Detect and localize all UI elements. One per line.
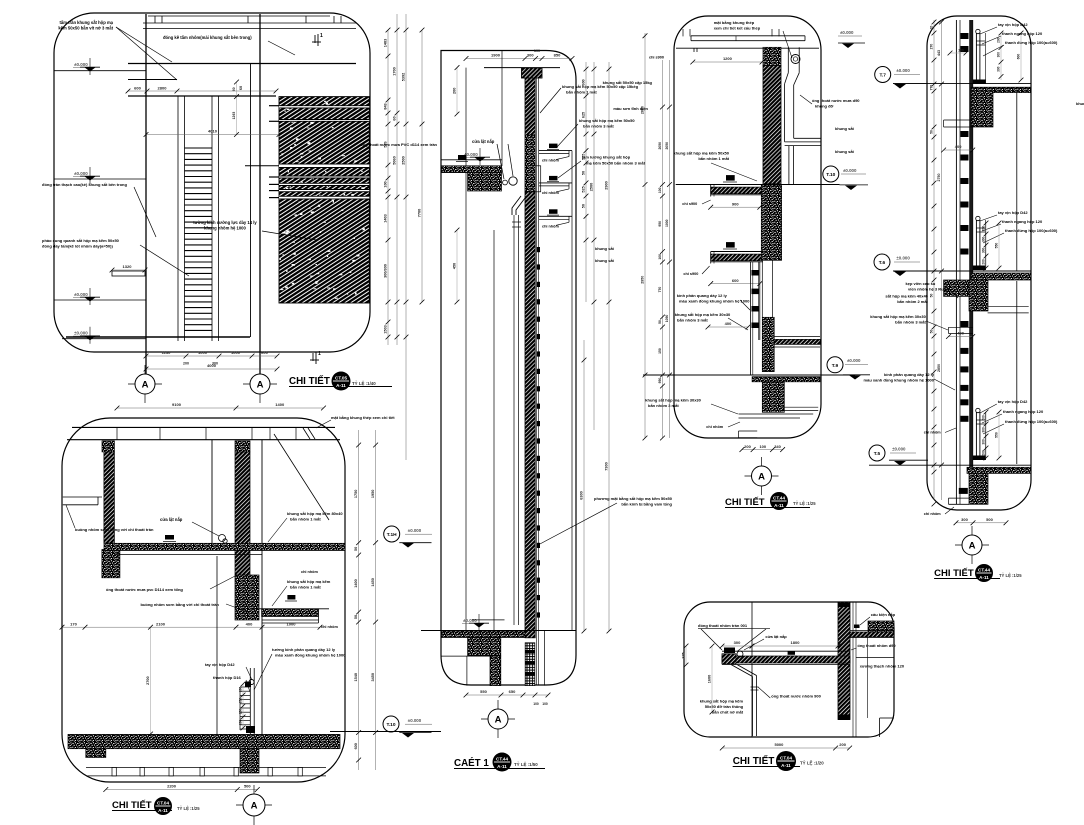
svg-text:TỶ LỆ :1/25: TỶ LỆ :1/25: [793, 501, 816, 506]
T9 circle: [827, 357, 843, 373]
dim 2700 vertical: [150, 627, 152, 734]
svg-text:chỉ nhôm: chỉ nhôm: [321, 625, 338, 629]
leader duong kinh: [262, 231, 317, 240]
D2 interior vline right: [261, 440, 263, 744]
svg-text:T.7: T.7: [879, 73, 886, 79]
svg-text:A-11: A-11: [979, 575, 989, 580]
svg-text:1950: 1950: [371, 490, 375, 498]
floor line y339: [62, 338, 146, 340]
svg-text:5000: 5000: [774, 742, 784, 747]
D4 slab 2: [971, 273, 1031, 280]
S interior vline 3: [493, 230, 495, 631]
svg-text:±0.000: ±0.000: [896, 256, 910, 261]
svg-text:TỶ LỆ :1/50: TỶ LỆ :1/50: [514, 762, 538, 767]
svg-text:325: 325: [682, 652, 686, 658]
svg-text:A-11: A-11: [336, 383, 346, 388]
svg-text:1000: 1000: [198, 350, 208, 355]
D2 ceiling line 1: [114, 554, 262, 556]
svg-text:1400: 1400: [275, 402, 285, 407]
D3 pipe horizontal: [785, 141, 821, 143]
D2 anchor hatch mid: [235, 441, 250, 452]
T11 circle: [384, 526, 400, 542]
svg-text:kẽm 50x50 bắn vít nở 3 mắt: kẽm 50x50 bắn vít nở 3 mắt: [58, 26, 113, 31]
svg-text:600: 600: [354, 743, 358, 749]
svg-text:±0.000: ±0.000: [463, 618, 477, 623]
svg-text:phào xung quanh sắt hộp mạ kẽm: phào xung quanh sắt hộp mạ kẽm 50x50: [42, 238, 120, 243]
svg-text:200: 200: [982, 226, 986, 232]
D4 floor line 2: [893, 270, 1031, 272]
D4 rail dim 1: [1000, 33, 1002, 80]
svg-text:20: 20: [930, 26, 934, 30]
leader mat bang D3: [783, 31, 792, 58]
leader khung sat D3a: [711, 163, 757, 181]
svg-text:khung sắt: khung sắt: [835, 149, 855, 154]
svg-text:CT.05: CT.05: [335, 375, 347, 380]
svg-text:tường kính phản quang dày 12 l: tường kính phản quang dày 12 ly: [272, 647, 336, 652]
floor line y71: [54, 70, 146, 72]
svg-text:2500: 2500: [402, 156, 406, 164]
svg-text:ống thoát nước nhôm 900: ống thoát nước nhôm 900: [771, 694, 821, 699]
dim chain D2 right: [358, 430, 360, 770]
svg-text:A: A: [758, 471, 765, 482]
D5 pipe vertical: [752, 677, 754, 737]
svg-text:buồng nhôm sorn bằng với chỉ t: buồng nhôm sorn bằng với chỉ thoát trần: [75, 527, 154, 532]
svg-text:đóng trần thạch cao(kẻ) khung: đóng trần thạch cao(kẻ) khung sắt bên tr…: [42, 182, 127, 187]
svg-text:A: A: [969, 540, 976, 551]
S slab right stub 1: [535, 166, 541, 192]
svg-text:TỶ LỆ :1/25: TỶ LỆ :1/25: [177, 806, 200, 811]
floor line between: [330, 731, 441, 733]
svg-text:T.5: T.5: [874, 451, 881, 457]
section flag top: [317, 34, 319, 46]
svg-text:bắn nhôm 3 mắt: bắn nhôm 3 mắt: [895, 320, 926, 325]
svg-text:chỉ nhôm: chỉ nhôm: [542, 159, 559, 163]
D3 pipe top: [787, 47, 789, 73]
svg-text:60: 60: [239, 86, 243, 90]
grid line A1 vertical: [145, 14, 147, 374]
D4 rail dim 3: [985, 412, 987, 458]
svg-text:khung sắt: khung sắt: [595, 258, 615, 263]
svg-text:màu xanh đồng khung nhôm hệ 10: màu xanh đồng khung nhôm hệ 1000: [864, 378, 935, 383]
svg-text:200: 200: [982, 450, 986, 456]
svg-text:6300: 6300: [580, 491, 584, 499]
svg-text:1503: 1503: [384, 325, 388, 333]
D3 column speckle mid: [761, 185, 781, 260]
svg-text:tấm trần khung sắt hộp mạ: tấm trần khung sắt hộp mạ: [59, 20, 113, 25]
dim 1200 D3: [693, 61, 762, 63]
D3 shelf 3: [739, 413, 814, 415]
ladder rungs: [177, 96, 179, 341]
svg-text:mạ kẽm 50x50 bắn nhôm 3 mắt: mạ kẽm 50x50 bắn nhôm 3 mắt: [586, 161, 646, 166]
svg-text:2050: 2050: [658, 142, 662, 150]
svg-text:50: 50: [658, 320, 662, 324]
svg-text:mặt bằng khung thép xem chi ti: mặt bằng khung thép xem chi tiết: [331, 415, 395, 420]
svg-text:cấu kiện nắp: cấu kiện nắp: [871, 612, 896, 617]
svg-text:400: 400: [955, 144, 962, 149]
svg-text:khung sắt hộp mạ kẽm: khung sắt hộp mạ kẽm: [287, 579, 331, 584]
svg-text:100: 100: [384, 181, 388, 187]
svg-text:843: 843: [384, 103, 388, 109]
dim 4000: [146, 368, 277, 370]
leader khung sat D3b: [728, 318, 748, 330]
D4 rail dim 2: [985, 223, 987, 268]
svg-text:5392: 5392: [402, 73, 406, 81]
svg-text:2500: 2500: [590, 183, 594, 191]
svg-text:550: 550: [480, 689, 487, 694]
svg-text:9100: 9100: [172, 402, 182, 407]
svg-text:2100: 2100: [156, 621, 166, 626]
svg-text:±0.000: ±0.000: [74, 292, 88, 297]
leader khung sat D4b: [926, 321, 948, 330]
S top cap line: [484, 67, 560, 69]
leader khung sat D2b: [272, 586, 287, 606]
svg-text:chỉ nhôm: chỉ nhôm: [924, 431, 941, 435]
svg-text:100: 100: [658, 187, 662, 193]
D5 interior vline: [751, 602, 753, 737]
S mid dim chain: [583, 340, 585, 631]
svg-text:770: 770: [658, 287, 662, 293]
dim chain S top: [466, 58, 572, 60]
S floor slab 1: [442, 166, 502, 173]
leader kep vien: [948, 288, 958, 298]
dim 400 D3: [708, 326, 748, 328]
svg-text:2050: 2050: [665, 142, 669, 150]
D4 bracket 1: [944, 119, 973, 121]
svg-text:±0.000: ±0.000: [892, 447, 906, 452]
D2 floor beam left: [86, 749, 106, 758]
svg-text:CHI TIẾT: CHI TIẾT: [725, 497, 765, 508]
grid line A2 vertical: [259, 14, 261, 374]
svg-text:CHI TIẾT: CHI TIẾT: [934, 568, 974, 579]
S mullion hatch lower: [525, 192, 535, 638]
svg-text:100: 100: [533, 702, 539, 706]
D3 mullion blocks: [752, 270, 760, 276]
D5 hatch band tr: [850, 632, 894, 637]
svg-text:300: 300: [997, 66, 1001, 72]
floor line y300: [54, 299, 146, 301]
svg-text:lam lường khung sắt hộp: lam lường khung sắt hộp: [582, 155, 631, 160]
S interior vline 2: [501, 51, 503, 167]
leader tam tran 2: [116, 27, 177, 80]
S glass vline: [571, 151, 573, 631]
svg-text:ống thoát nước mưa d90: ống thoát nước mưa d90: [812, 98, 860, 103]
svg-text:50: 50: [354, 547, 358, 551]
D5 beam: [722, 650, 850, 652]
D3 column hatch: [763, 66, 781, 184]
svg-text:T.10: T.10: [386, 722, 395, 728]
svg-text:mặt bằng khung thép: mặt bằng khung thép: [714, 20, 755, 25]
detail frame D2: [62, 418, 345, 782]
D4 mullion lines: [955, 20, 957, 504]
svg-text:1200: 1200: [723, 56, 733, 61]
svg-text:525: 525: [582, 154, 586, 160]
svg-text:±0.000: ±0.000: [408, 528, 422, 533]
S beam lines: [441, 655, 490, 657]
svg-text:kính phản quang dày 12 ly: kính phản quang dày 12 ly: [884, 372, 935, 377]
grid bubble A1: [144, 365, 146, 403]
D2 shelf 2 lines: [250, 608, 329, 610]
svg-text:±0.000: ±0.000: [896, 68, 910, 73]
D3 small bracket: [739, 430, 758, 432]
svg-text:±0.000: ±0.000: [74, 171, 88, 176]
D4 mullion blocks: [961, 33, 969, 39]
D3 shelf 2: [726, 242, 735, 248]
dim 400 D4a: [944, 149, 973, 151]
svg-text:tay vịn hộp D42: tay vịn hộp D42: [998, 22, 1028, 27]
svg-text:khung sắt hộp mạ kẽm 30x30: khung sắt hộp mạ kẽm 30x30: [870, 314, 926, 319]
svg-text:CT.44: CT.44: [496, 756, 508, 761]
D5 top right speckle: [868, 621, 894, 632]
S vent grille: [525, 643, 535, 686]
D5 dim 1600: [711, 646, 713, 712]
leader kinh phan quang D2: [254, 654, 272, 690]
svg-text:2950: 2950: [641, 276, 645, 284]
svg-text:50: 50: [930, 294, 934, 298]
D3 floor line 1: [676, 184, 840, 186]
svg-text:A: A: [495, 714, 502, 725]
svg-text:50: 50: [930, 330, 934, 334]
dim 400 D4b: [949, 336, 973, 338]
svg-text:270: 270: [930, 44, 934, 50]
svg-text:1130: 1130: [162, 350, 171, 355]
svg-text:bắn nhôm 3 mắt: bắn nhôm 3 mắt: [648, 403, 679, 408]
svg-text:950: 950: [658, 378, 662, 384]
D3 slab band mid: [774, 339, 820, 344]
svg-text:400: 400: [957, 331, 964, 336]
svg-text:±0.000: ±0.000: [408, 718, 422, 723]
svg-text:1320: 1320: [123, 264, 133, 269]
T7 circle: [875, 67, 891, 83]
D4 grid bubble: [971, 526, 973, 564]
svg-text:1483: 1483: [384, 39, 388, 47]
S dim bottom: [466, 694, 548, 696]
svg-text:650: 650: [509, 689, 516, 694]
svg-text:khung nhôm hệ 1000: khung nhôm hệ 1000: [204, 226, 246, 231]
dim 60 1263 D1: [236, 82, 238, 135]
svg-text:4010: 4010: [208, 129, 218, 134]
svg-text:1800: 1800: [791, 640, 801, 645]
svg-text:450: 450: [453, 263, 457, 269]
D5 pipe diagonal: [731, 665, 752, 677]
svg-text:50: 50: [582, 204, 586, 208]
S dim 450 vertical: [456, 230, 458, 302]
svg-text:500: 500: [244, 784, 251, 789]
svg-text:2200: 2200: [167, 784, 177, 789]
svg-text:T.9: T.9: [832, 363, 839, 369]
D2 grid bubble: [253, 785, 255, 825]
svg-text:250: 250: [239, 698, 243, 704]
svg-text:khung sắt: khung sắt: [835, 126, 855, 131]
S mullion hatch upper: [525, 78, 535, 135]
svg-text:cửa lật nắp: cửa lật nắp: [160, 517, 183, 522]
D4 beam 1: [971, 91, 993, 127]
svg-text:bắn chốt nở mắt: bắn chốt nở mắt: [712, 710, 744, 715]
D2 beam ticks: [116, 427, 118, 439]
svg-text:1: 1: [320, 33, 323, 39]
D2 under-wall block: [240, 749, 259, 773]
svg-text:khung sắt hộp mạ kẽm: khung sắt hộp mạ kẽm: [700, 699, 744, 704]
svg-text:150: 150: [658, 348, 662, 354]
T10 circle D3: [823, 166, 839, 182]
D2 bracket left: [63, 496, 102, 498]
svg-text:viền nhôm hệ 3 RuYa: viền nhôm hệ 3 RuYa: [908, 287, 949, 292]
svg-text:chỉ nhôm: chỉ nhôm: [706, 425, 723, 429]
svg-text:2700: 2700: [146, 676, 150, 684]
D2 wall mid speckle: [235, 575, 259, 620]
svg-text:300: 300: [997, 52, 1001, 58]
svg-text:1: 1: [318, 351, 321, 357]
svg-text:±0.000: ±0.000: [843, 168, 857, 173]
svg-text:TỶ LỆ :1/40: TỶ LỆ :1/40: [352, 381, 376, 386]
hline y96: [128, 95, 276, 97]
vertical dim chain 1: [387, 30, 389, 345]
svg-text:bắn nhôm 1 mắt: bắn nhôm 1 mắt: [290, 517, 321, 522]
svg-text:550: 550: [995, 432, 999, 438]
svg-text:khung sắt hộp mạ kẽm 50x50: khung sắt hộp mạ kẽm 50x50: [673, 151, 729, 156]
D4 railing 2: [976, 216, 980, 220]
svg-text:100: 100: [759, 444, 766, 449]
S grid bubble: [497, 700, 499, 738]
D3 pipe drop: [788, 146, 790, 184]
D5 column cap: [838, 715, 850, 721]
D3 top lines: [691, 35, 805, 37]
svg-text:300: 300: [982, 237, 986, 243]
S mullion right face lines: [536, 78, 538, 685]
svg-text:bắn nhôm 1 mắt: bắn nhôm 1 mắt: [698, 156, 729, 161]
svg-text:600: 600: [134, 86, 141, 91]
D3 gap verticals: [761, 260, 763, 317]
svg-text:chỉ s900: chỉ s900: [683, 272, 698, 276]
dim 600 2800: [128, 90, 276, 92]
section flag bottom: [315, 352, 317, 364]
detail frame D1: [54, 13, 370, 352]
svg-text:cửa lật nắp: cửa lật nắp: [765, 634, 787, 639]
D4 floor line 3: [869, 464, 1031, 466]
detail frame D4: [927, 16, 1031, 510]
D2 anchor hatch left: [102, 441, 114, 452]
svg-text:A-11: A-11: [774, 503, 784, 508]
svg-text:170: 170: [70, 621, 77, 626]
D2 mullion: [249, 668, 251, 734]
svg-text:300: 300: [527, 53, 534, 58]
svg-text:bắn nhôm 3 mắt: bắn nhôm 3 mắt: [583, 124, 614, 129]
svg-text:phương mặt bằng sắt hộp mạ kẽm: phương mặt bằng sắt hộp mạ kẽm 50x50: [594, 496, 673, 501]
leader ong thoat D2: [210, 575, 237, 589]
D2 mini ladder: [240, 686, 250, 688]
T5 circle: [869, 445, 885, 461]
svg-text:600: 600: [582, 79, 586, 85]
D2 wall left hatch: [104, 452, 115, 543]
svg-text:600: 600: [261, 350, 268, 355]
svg-text:khung sắt hộp mạ kẽm 30x30: khung sắt hộp mạ kẽm 30x30: [675, 312, 731, 317]
svg-text:khung: khung: [1076, 101, 1084, 106]
D4 beam 2: [969, 280, 988, 311]
D4 railing 1: [976, 29, 980, 33]
leader khung sat D2a: [268, 518, 287, 542]
ceiling top line: [148, 15, 330, 17]
svg-text:A: A: [142, 379, 149, 390]
svg-text:100: 100: [534, 49, 540, 53]
svg-text:cửa lật nắp: cửa lật nắp: [472, 139, 495, 144]
S mullion speckle mid: [525, 135, 535, 192]
D3 slab 2: [752, 377, 820, 382]
D2 blob 1: [165, 535, 174, 540]
svg-text:TỶ LỆ :1/25: TỶ LỆ :1/25: [999, 573, 1022, 578]
svg-text:200: 200: [183, 362, 189, 366]
S interior vline 1: [465, 68, 467, 631]
svg-text:1000: 1000: [231, 350, 241, 355]
svg-text:300: 300: [982, 248, 986, 254]
D5 column hatch: [838, 603, 850, 720]
leader khung sat S1: [540, 88, 561, 113]
svg-text:2850: 2850: [937, 364, 941, 372]
dim 300 D5: [722, 645, 752, 647]
S fastener marks: [537, 247, 540, 252]
D4 floor line 1: [893, 83, 1031, 85]
svg-text:khung đỡ: khung đỡ: [815, 104, 834, 109]
svg-text:200: 200: [839, 742, 846, 747]
D3 pipe elbow: [785, 73, 789, 84]
D4 slab 1: [971, 87, 1031, 92]
S level line 1: [441, 159, 502, 161]
svg-text:kẹp viền cao su: kẹp viền cao su: [906, 281, 936, 286]
D3 column speckle top: [763, 47, 781, 65]
svg-text:khung sắt hộp mạ kẽm 30x30: khung sắt hộp mạ kẽm 30x30: [645, 398, 701, 403]
S right dim chain: [585, 62, 587, 302]
svg-text:100: 100: [658, 254, 662, 260]
svg-text:thanh ngang hộp 120: thanh ngang hộp 120: [1002, 219, 1043, 224]
svg-text:khung sắt 50x50 cặp 15kg: khung sắt 50x50 cặp 15kg: [603, 80, 653, 85]
D4 slab 3: [967, 467, 1031, 473]
svg-text:950: 950: [658, 221, 662, 227]
D4 interior vline right wing: [1016, 92, 1018, 271]
S dim 200 vertical: [456, 68, 458, 114]
svg-text:±0.000: ±0.000: [74, 331, 88, 336]
svg-text:1900: 1900: [491, 53, 501, 58]
floor line y179: [54, 178, 146, 180]
leader khung sat D3c: [711, 404, 738, 414]
svg-text:buồng nhôm sorn bằng với chỉ t: buồng nhôm sorn bằng với chỉ thoát trần: [141, 602, 220, 607]
svg-text:1700: 1700: [393, 67, 397, 75]
svg-text:50: 50: [354, 615, 358, 619]
svg-text:2900: 2900: [605, 181, 609, 189]
S shelf 3: [549, 209, 558, 214]
D5 tr lines: [850, 630, 894, 632]
svg-text:A: A: [251, 800, 258, 811]
D3 slab lines mid: [774, 336, 820, 338]
svg-text:±0.000: ±0.000: [74, 62, 88, 67]
svg-text:màu xanh đồng khung nhôm hệ 10: màu xanh đồng khung nhôm hệ 1000: [679, 299, 750, 304]
leader tam tran 1: [116, 27, 172, 62]
svg-text:200: 200: [997, 37, 1001, 43]
svg-text:CAÉT 1: CAÉT 1: [454, 757, 489, 769]
svg-text:7700: 7700: [418, 209, 422, 217]
svg-text:50: 50: [582, 171, 586, 175]
leader phuong ngat: [538, 503, 617, 545]
svg-text:3450: 3450: [371, 673, 375, 681]
D3 floor line 2: [643, 374, 855, 376]
svg-text:CHI TIẾT: CHI TIẾT: [289, 376, 330, 387]
svg-text:T.6: T.6: [879, 260, 886, 266]
svg-text:tay vịn hộp D42: tay vịn hộp D42: [998, 210, 1028, 215]
D5 interior vline 2: [867, 638, 869, 719]
svg-text:ống thoát nước mưa pvc D114 xe: ống thoát nước mưa pvc D114 xem tổng: [106, 587, 183, 592]
S shelf 1: [549, 144, 558, 149]
svg-text:100: 100: [542, 702, 548, 706]
T6 circle: [874, 254, 890, 270]
D3 beam 2: [762, 382, 784, 413]
svg-text:sắt hộp mạ kẽm 40x40: sắt hộp mạ kẽm 40x40: [885, 294, 928, 299]
